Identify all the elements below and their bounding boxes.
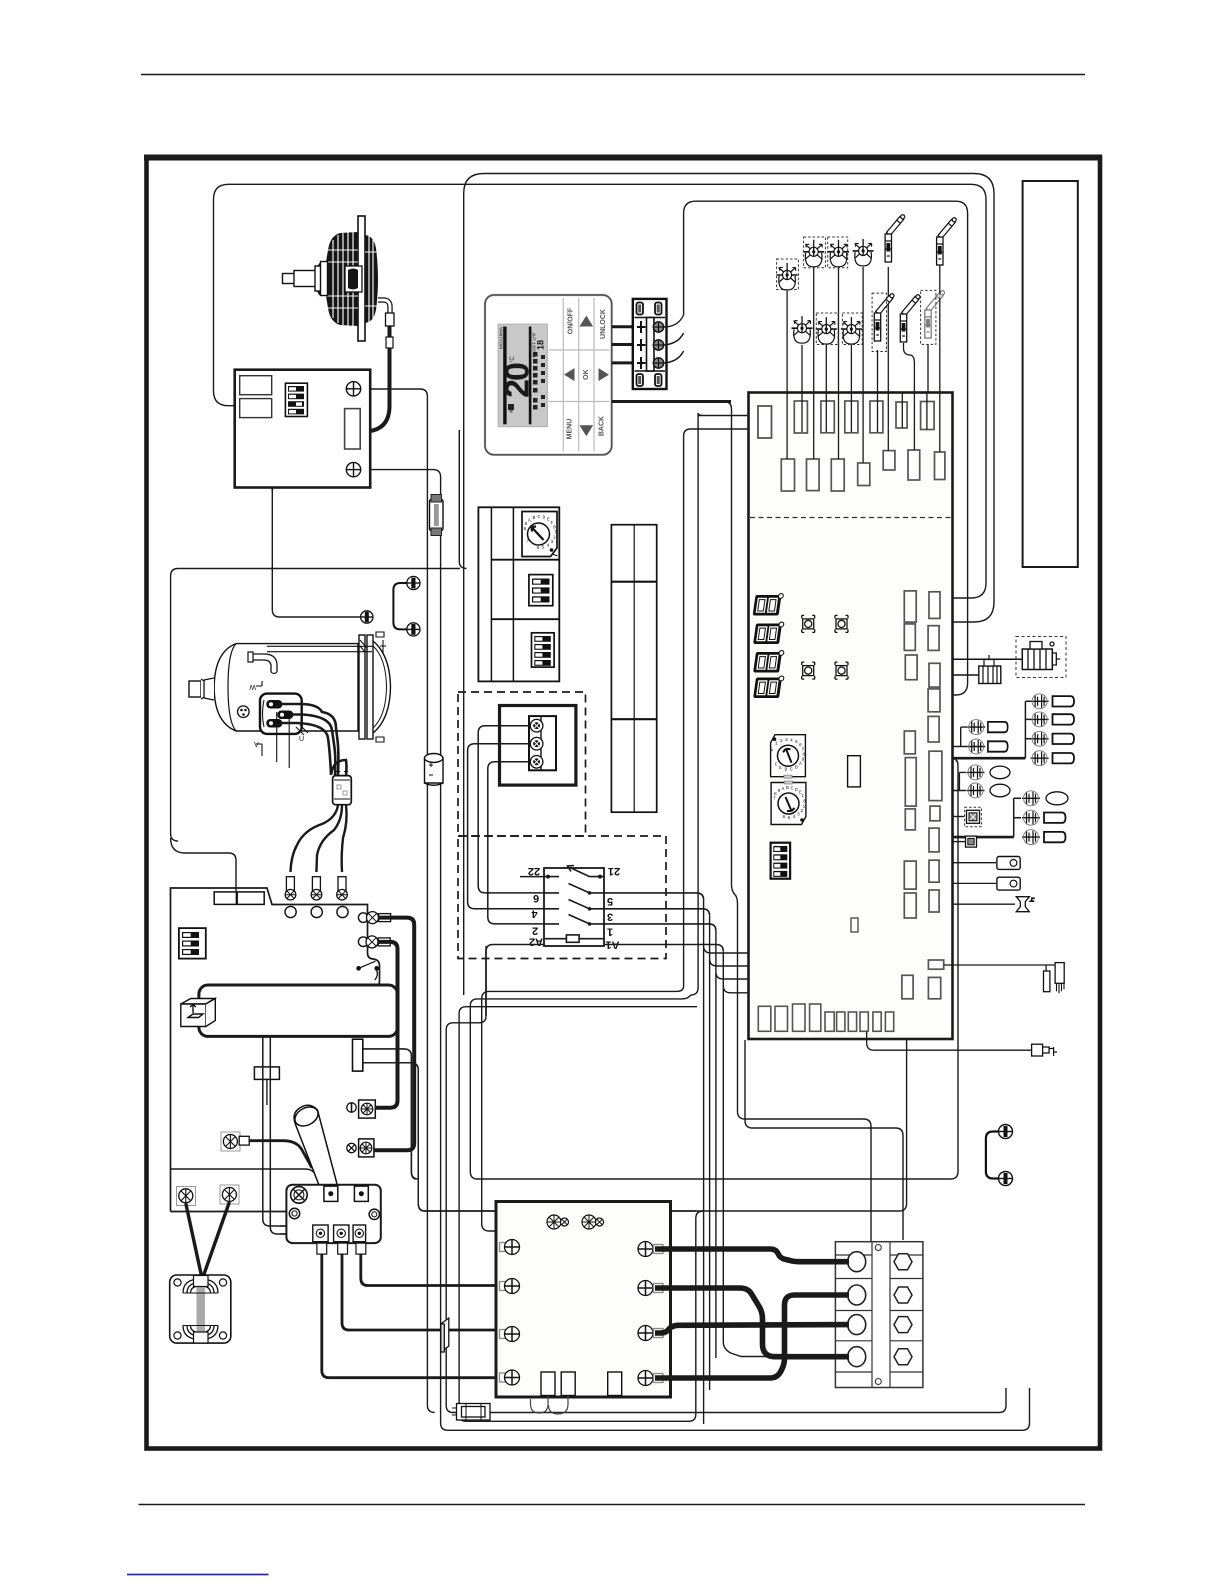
ground screw A [360,611,374,623]
relay box 2 [953,841,966,843]
connector wires right [363,1049,696,1211]
contactor A2 wire left [486,945,544,1017]
wire contactor feeds to pcb and down [704,900,759,1424]
thick wire screw1 to box2 [374,918,414,1151]
probe sensor RT4 [900,294,921,342]
svg-text:A: A [782,786,785,792]
wire screw stub from fan box bottom [272,489,361,617]
svg-text:18: 18 [536,340,546,350]
svg-text:2: 2 [780,738,783,744]
crystal component 1 [953,862,997,864]
probe sensor RT2 [937,217,958,265]
svg-text:MOA16MA: MOA16MA [499,327,504,349]
svg-text:6: 6 [533,892,539,904]
svg-text:F: F [775,762,778,768]
contactor KM [544,868,604,946]
open circles row [285,906,368,946]
pcb right connector column A [902,591,917,999]
svg-text:5: 5 [607,895,613,907]
pcb center connector rect [848,756,861,787]
remote button labels [566,307,607,439]
compressor terminal cover [260,694,302,734]
remote wires x4 [612,327,731,402]
module top terminals [324,1186,368,1201]
motor body right part [365,235,378,323]
plug group D (ellipse + 2 caps) [953,836,1014,839]
big capacitor cylinder tilted [292,1103,337,1193]
ground screw pair right [986,1125,1013,1186]
remote terminal block XYE [633,299,667,389]
pcb second connector row [781,450,945,491]
wire left long vertical with branch [171,569,460,892]
svg-text:°C: °C [510,356,516,363]
compressor long top pipe [267,646,374,651]
motor hub window [345,266,362,292]
pcb top connector row [794,401,934,433]
dashed box lower [458,836,666,959]
thin wire to module [171,1169,328,1191]
pcb bottom connector row [758,1004,893,1031]
svg-text:D: D [795,787,798,793]
wire bundle vertical 1 [691,413,759,995]
module bottom terminals [313,1225,366,1242]
block terminals right [894,1254,912,1365]
solenoid valve plug S2 (dashed box) [953,642,1061,670]
svg-text:6: 6 [783,814,786,820]
wire remote line 4 down [612,402,871,1243]
bottom right plug pair [944,962,1060,971]
address switch box [478,507,559,681]
fuse on fan wire [430,495,444,536]
3-screw terminal box [500,706,576,786]
wire bundle vertical 2 [684,429,759,986]
fan box screw top [346,382,360,396]
contactor contacts [544,866,604,924]
svg-text:4: 4 [547,543,550,549]
probe sensor RT1 [885,214,906,262]
small capacitor on wire [425,754,444,786]
reactor arrow box [181,999,216,1027]
pcb left power connector [758,406,772,438]
valve coil YV6 (dashed) [841,317,862,344]
compressor terminal labels [249,683,304,749]
fan box relay rect 2 [240,399,272,418]
reactor rounded rect [199,985,398,1036]
remote arrow buttons [564,316,609,437]
svg-text:A: A [528,518,531,524]
pcb bottom rects [541,1372,622,1396]
sensor wires vertical [787,265,940,394]
output screws with tabs [366,912,391,948]
contactor coil [544,938,604,940]
module input ticks [280,1226,287,1234]
fan box connector [345,409,361,449]
svg-text:B: B [786,785,789,791]
svg-text:4: 4 [790,738,793,744]
svg-text:7: 7 [527,538,530,544]
plug group A (4 caps) [953,757,1026,760]
svg-text:B: B [533,515,536,521]
valve coil YV1 (dashed) [803,240,824,267]
block center strip [647,318,655,372]
valve coil YV3 [853,239,874,266]
svg-text:20: 20 [499,363,537,398]
power filter PCB [496,1202,671,1398]
svg-text:3: 3 [785,737,788,743]
blue footer line [127,1574,269,1576]
connector component on mid vertical [441,1318,449,1352]
wire left-pcb thin pair down [363,1049,416,1179]
IPM power module [286,1185,380,1243]
fan drive box [235,370,371,488]
screw box 1 [347,1100,376,1118]
pcb sensor wire extensions [787,393,940,463]
compressor top elbow pipe [252,654,264,660]
tall relay block [611,525,656,813]
solenoid valve plug S1 [953,655,1001,684]
svg-text:9: 9 [778,788,781,794]
pcb push buttons SW1-SW4 [802,615,848,679]
transformer core bar [197,1286,206,1333]
compressor body [189,632,391,742]
screw box 2 [347,1139,374,1157]
pcb 7seg displays [753,594,784,698]
pcb bottom curl wires [531,1396,549,1414]
bottom rule [139,1504,1086,1506]
pcb right screws col [638,1242,663,1386]
svg-text:5: 5 [542,545,545,551]
module mount screw [291,1187,308,1204]
svg-text:W: W [249,683,256,690]
dashed box upper [458,692,586,836]
fan box relay rect 1 [240,376,272,395]
motor cable elbow [378,300,390,314]
pcb rotary encoder S2 [771,781,806,825]
pcb rotary encoder S1 [769,735,806,779]
block right curved wires [664,315,684,363]
svg-text:A2: A2 [529,936,543,948]
svg-text:2: 2 [801,808,804,814]
svg-text:3: 3 [551,539,554,545]
motor body left part [317,232,358,326]
pressure switch [953,903,1016,905]
wired remote controller [485,295,612,455]
svg-text:4: 4 [793,814,796,820]
compressor wires capacitor to inverter bullets [291,805,347,872]
remote button grid lines [549,298,610,452]
cn plug far right [867,1032,1031,1051]
valve coil YV2 (dashed) [828,240,849,267]
motor mounting plate [358,216,365,341]
probe sensor RT3 (dashed) [874,293,895,341]
module output wires [322,1254,505,1378]
ground screw pair B with bracket [393,576,420,636]
fan box bottom tick [271,488,273,492]
main terminal block 4 pole [835,1242,923,1388]
plug group C (2 ellipse sensors) [953,772,967,790]
switch contact symbol [357,961,379,980]
svg-text:A: A [799,761,802,767]
contactor labels (rotated 180) [528,865,620,951]
svg-text:C: C [791,786,794,792]
remote LCD [498,324,547,427]
tall rectangle top right [1023,181,1078,567]
rotary switch ENC1 [522,512,558,557]
board connector right [353,1039,363,1071]
remote LCD icon rows [508,352,545,410]
fan motor M1 [283,216,395,432]
fan box DIP switch SW (4 pos) [285,383,307,416]
svg-text:V: V [254,742,259,749]
compressor terminal pins [267,701,293,728]
compressor wires to connector [281,704,347,775]
svg-text:C: C [790,767,793,773]
svg-text:D: D [785,767,788,773]
block mount slots [637,303,662,387]
svg-text:9: 9 [802,757,805,763]
svg-text:MENU: MENU [566,419,573,440]
board top rects [214,892,236,905]
thick wires power pcb to block [655,1249,849,1378]
inverter board outline [171,888,380,1212]
svg-text:E: E [779,765,782,771]
bullet terminals U V W [285,877,347,900]
svg-text:22: 22 [528,865,540,877]
pcb right connector column B [928,592,944,999]
svg-text:ON/OFF: ON/OFF [567,307,574,334]
svg-text:2: 2 [532,925,538,937]
transformer windings top [183,1279,218,1340]
module rings [289,1208,299,1218]
compressor left suction stub [204,678,214,700]
thick wire screw2 to box1 [376,942,398,1108]
main frame border [147,158,1101,1449]
svg-text:4: 4 [531,908,538,920]
compressor right flange [359,635,365,739]
svg-text:3: 3 [607,911,613,923]
compressor capacitor connector [333,770,352,805]
svg-text:BACK: BACK [598,416,605,436]
dip switch 3pos [529,575,553,606]
filter component on bottom wire [452,1404,490,1421]
board small connector with line [254,1067,279,1080]
top rule [141,74,1085,76]
thick wire tab screw to cylinder [249,1141,312,1168]
wire fan wires down left pair [358,389,435,1413]
svg-text:C: C [538,514,541,520]
contactor right wires [604,893,723,952]
transformer TR [170,1275,231,1343]
reactor output wires to module [263,1036,287,1234]
wire bundle left horizontals [482,986,684,1243]
svg-text:B: B [795,765,798,771]
motor ribs white [326,232,377,326]
block screw circles [653,322,663,368]
valve coil YV5 (dashed) [816,317,837,344]
svg-text:21: 21 [608,865,620,877]
wire pcb stub down [745,1040,903,1240]
dip switch 4pos [532,633,555,667]
valve coil YV4 [792,316,813,343]
contactor 22 stub left [520,876,544,878]
probe sensor RT5 (dashed, light) [925,290,946,338]
svg-text:D: D [543,515,546,521]
fan box screw bottom [346,462,360,476]
wire loop C (terminal block to PCB) [684,201,968,695]
relay box dashed [953,816,965,818]
svg-text:U: U [299,736,304,743]
compressor sight glass [238,706,250,718]
pcb top twin screws [547,1215,604,1229]
svg-text:UNLOCK: UNLOCK [600,309,607,339]
motor shaft [283,262,328,296]
valve coil YVL (dashed) [777,263,798,290]
board dip 3pos [179,928,206,959]
pcb dashed divider [750,517,951,519]
block terminals left [848,1252,866,1367]
compressor test leads [256,681,308,768]
wire loop A (outer top loop to PCB) [464,174,994,996]
wire loop B (fan box to PCB) [214,184,987,598]
svg-text:1: 1 [775,741,778,747]
pcb left screws col [500,1240,520,1386]
svg-text:OK: OK [583,369,590,380]
motor cable down [363,326,390,432]
svg-text:2: 2 [553,535,556,541]
pcb DIP switch 4pos [771,843,791,879]
svg-text:3: 3 [797,812,800,818]
main control PCB [749,393,953,1040]
thick V wires to transformer [186,1202,230,1277]
block plus terminals [637,321,646,369]
plug group B (2 caps) [953,727,968,746]
board screws bottom left [177,1132,250,1206]
svg-text:5: 5 [795,739,798,745]
pcb small inner rect [851,918,858,932]
3-screw wires to contactor [468,726,544,924]
svg-text:6: 6 [537,545,540,551]
crystal component 2 [953,882,997,884]
svg-text:5: 5 [788,815,791,821]
svg-text:1: 1 [607,926,613,938]
